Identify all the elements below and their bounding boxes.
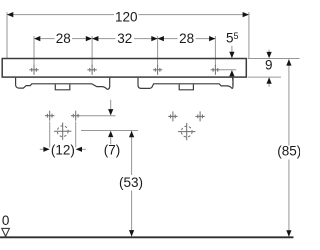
left pedestal outline: [16, 78, 110, 89]
svg-text:9: 9: [265, 58, 273, 73]
dimension 5.5: down arrow to basin top: [231, 46, 233, 53]
right bowl small hole crosshair C: [168, 111, 177, 121]
svg-text:28: 28: [179, 31, 194, 46]
tap-hole extension line 2: [91, 36, 93, 66]
ground line: [0, 236, 294, 238]
dimension 28 left: dim line: [41, 38, 55, 40]
svg-text:(85): (85): [277, 144, 300, 159]
dimension 120: left arrowhead: [7, 12, 13, 17]
dimension 120: right arrowhead: [243, 12, 249, 17]
svg-text:(53): (53): [119, 175, 143, 190]
dimension 9: top arrow: [268, 50, 270, 53]
tap hole crosshair 2: [87, 65, 96, 75]
dimension (7): top arrow: [110, 100, 112, 110]
washbasin body outline: [2, 59, 246, 78]
dimension 5.5: curved up arrow to tap hole leader: [231, 77, 234, 85]
tap-hole extension line 4: [214, 36, 216, 66]
dimension 120: dim line: [7, 14, 114, 16]
svg-text:0: 0: [2, 213, 10, 228]
dimension (53): dim line: [131, 131, 133, 175]
svg-text:(12): (12): [51, 142, 75, 157]
tap hole 4 leader line: [220, 69, 236, 71]
tap-hole extension line 1: [33, 36, 35, 66]
tap-hole extension line 3: [157, 36, 159, 66]
right drain hole symbol: [178, 123, 195, 140]
tap hole crosshair 3: [153, 65, 162, 75]
dimension 32: arrowheads: [92, 36, 98, 41]
dimension (7): bottom arrow: [108, 131, 113, 137]
floor level triangle: [2, 228, 10, 236]
left bowl small hole crosshair A: [45, 111, 54, 121]
dimension 28 right: arrowheads: [158, 36, 164, 41]
right drain tab: [179, 84, 193, 89]
dimension (85): top arrowhead: [286, 59, 291, 65]
dimension 28 right: dim line: [158, 38, 178, 40]
dimension 9: extension line top: [248, 58, 300, 60]
tap hole crosshair 1: [29, 65, 38, 75]
dimension (12): extension lines: [49, 122, 51, 148]
left drain tab: [55, 84, 70, 89]
drain leader line: [81, 130, 138, 132]
svg-text:32: 32: [117, 31, 132, 46]
dimension (53): top arrowhead: [129, 131, 134, 137]
left drain hole symbol: [54, 123, 71, 140]
right pedestal outline: [138, 78, 233, 89]
svg-text:(7): (7): [104, 142, 121, 157]
svg-text:120: 120: [115, 9, 138, 24]
dimension 120: extension line left: [6, 12, 8, 58]
dimension (53): bottom arrowhead: [129, 230, 134, 236]
dimension 28 left: arrowheads: [34, 36, 40, 41]
dimension 120: extension line right: [248, 12, 250, 58]
dimension (85): bottom arrowhead: [286, 230, 291, 236]
dimension (12): arrows: [40, 148, 44, 150]
tap hole crosshair 4: [211, 65, 220, 75]
right bowl small hole crosshair D: [195, 111, 204, 121]
dimension (85): dim line: [288, 59, 290, 145]
dimension 32: dim line: [92, 38, 115, 40]
dimension 9: bottom arrow: [267, 77, 272, 83]
svg-text:28: 28: [56, 31, 71, 46]
small hole B leader line: [80, 115, 115, 117]
dimension 9: extension line bottom: [248, 76, 281, 78]
left bowl small hole crosshair B: [71, 111, 80, 121]
